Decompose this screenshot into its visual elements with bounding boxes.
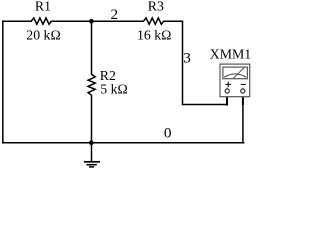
svg-text:R3: R3 bbox=[148, 0, 164, 14]
svg-text:20 kΩ: 20 kΩ bbox=[26, 28, 60, 43]
svg-text:0: 0 bbox=[164, 124, 172, 141]
svg-text:2: 2 bbox=[111, 6, 119, 23]
svg-text:3: 3 bbox=[183, 50, 191, 67]
svg-text:XMM1: XMM1 bbox=[210, 46, 251, 61]
svg-text:5 kΩ: 5 kΩ bbox=[100, 82, 128, 97]
svg-text:R1: R1 bbox=[35, 0, 51, 14]
svg-text:16 kΩ: 16 kΩ bbox=[137, 28, 171, 43]
